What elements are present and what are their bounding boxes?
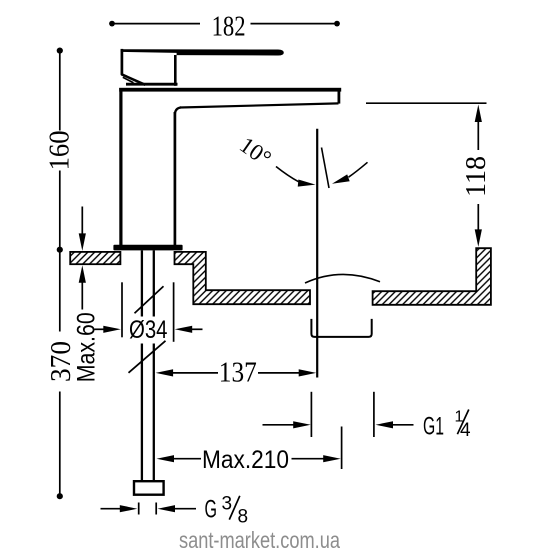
dim G1-1/4 ext left	[310, 392, 312, 437]
supply pipe right line	[153, 250, 155, 316]
basin water arc	[305, 274, 380, 283]
spout bottom edge	[180, 103, 339, 107]
drain U outline	[311, 319, 371, 337]
dim 118 bottom arrow	[477, 204, 479, 231]
dim G3/8 left arrow	[101, 508, 122, 510]
pipe break slash lower	[129, 341, 166, 373]
dim 118 ext line	[366, 102, 487, 104]
svg-text:3: 3	[222, 494, 233, 515]
svg-text:Max.60: Max.60	[73, 312, 101, 382]
dim 160 line	[57, 48, 63, 54]
faucet handle bevel inner line	[123, 77, 134, 83]
dim G3/8 right arrow	[158, 505, 176, 512]
svg-text:G: G	[205, 496, 218, 524]
drain centerline	[316, 129, 318, 378]
faucet handle lever bar	[121, 49, 284, 55]
faucet base plate	[113, 245, 182, 251]
dim Max210 left arrow	[157, 455, 175, 462]
spout body corner	[175, 107, 181, 114]
angle arrow right	[331, 174, 350, 187]
faucet body left edge	[119, 88, 122, 246]
basin right hatched section	[373, 248, 491, 305]
dim Max210 ext line	[341, 427, 343, 470]
dim 137 left arrow	[156, 369, 174, 376]
dim 137 right arrow	[258, 372, 299, 374]
angle arc right	[349, 162, 368, 177]
faucet handle back edge	[121, 49, 124, 75]
dim Max60 top arrow	[81, 207, 83, 236]
dim diameter 34 left arrow	[95, 328, 107, 330]
svg-text:8: 8	[238, 506, 249, 527]
faucet handle front face	[174, 55, 177, 86]
dim Max210 right arrow	[292, 458, 325, 460]
svg-text:160: 160	[45, 130, 76, 170]
dim G1-1/4 left arrow	[263, 424, 295, 426]
counter and basin mid hatched section	[175, 252, 311, 304]
spout end cap	[337, 89, 340, 104]
angle arrow left	[298, 179, 316, 188]
dim diameter 34 right arrow	[175, 326, 193, 333]
dim 182 line	[109, 21, 115, 27]
faucet handle bevel	[121, 74, 145, 85]
svg-text:182: 182	[212, 11, 246, 42]
svg-text:Ø34: Ø34	[129, 316, 168, 344]
faucet body top and spout top edge	[119, 88, 341, 92]
tilted stream line 10 degrees	[322, 148, 330, 189]
dim G1-1/4 right arrow	[376, 421, 394, 428]
dim G3/8 tick right	[155, 503, 157, 515]
svg-text:G1: G1	[423, 413, 444, 441]
svg-text:sant-market.com.ua: sant-market.com.ua	[179, 527, 340, 553]
faucet body right edge	[174, 112, 177, 246]
faucet handle bottom line	[126, 83, 178, 86]
dim G1-1/4 ext right	[373, 392, 375, 437]
svg-text:Max.210: Max.210	[202, 446, 289, 474]
dim 118 top arrow	[475, 105, 482, 123]
svg-text:137: 137	[219, 358, 257, 389]
pipe break slash upper	[135, 286, 164, 313]
dim diameter 34 ext right	[173, 282, 175, 342]
counter left hatched block	[70, 252, 120, 264]
angle arc left	[276, 167, 299, 182]
dim G3/8 tick left	[138, 503, 140, 515]
svg-text:4: 4	[460, 420, 471, 441]
svg-text:118: 118	[461, 156, 492, 197]
supply pipe left line	[141, 250, 143, 316]
dim 370 line	[59, 250, 61, 332]
dim Max60 bottom arrow	[79, 265, 86, 283]
dim diameter 34 ext left	[121, 282, 123, 337]
supply hose nut	[134, 481, 164, 495]
